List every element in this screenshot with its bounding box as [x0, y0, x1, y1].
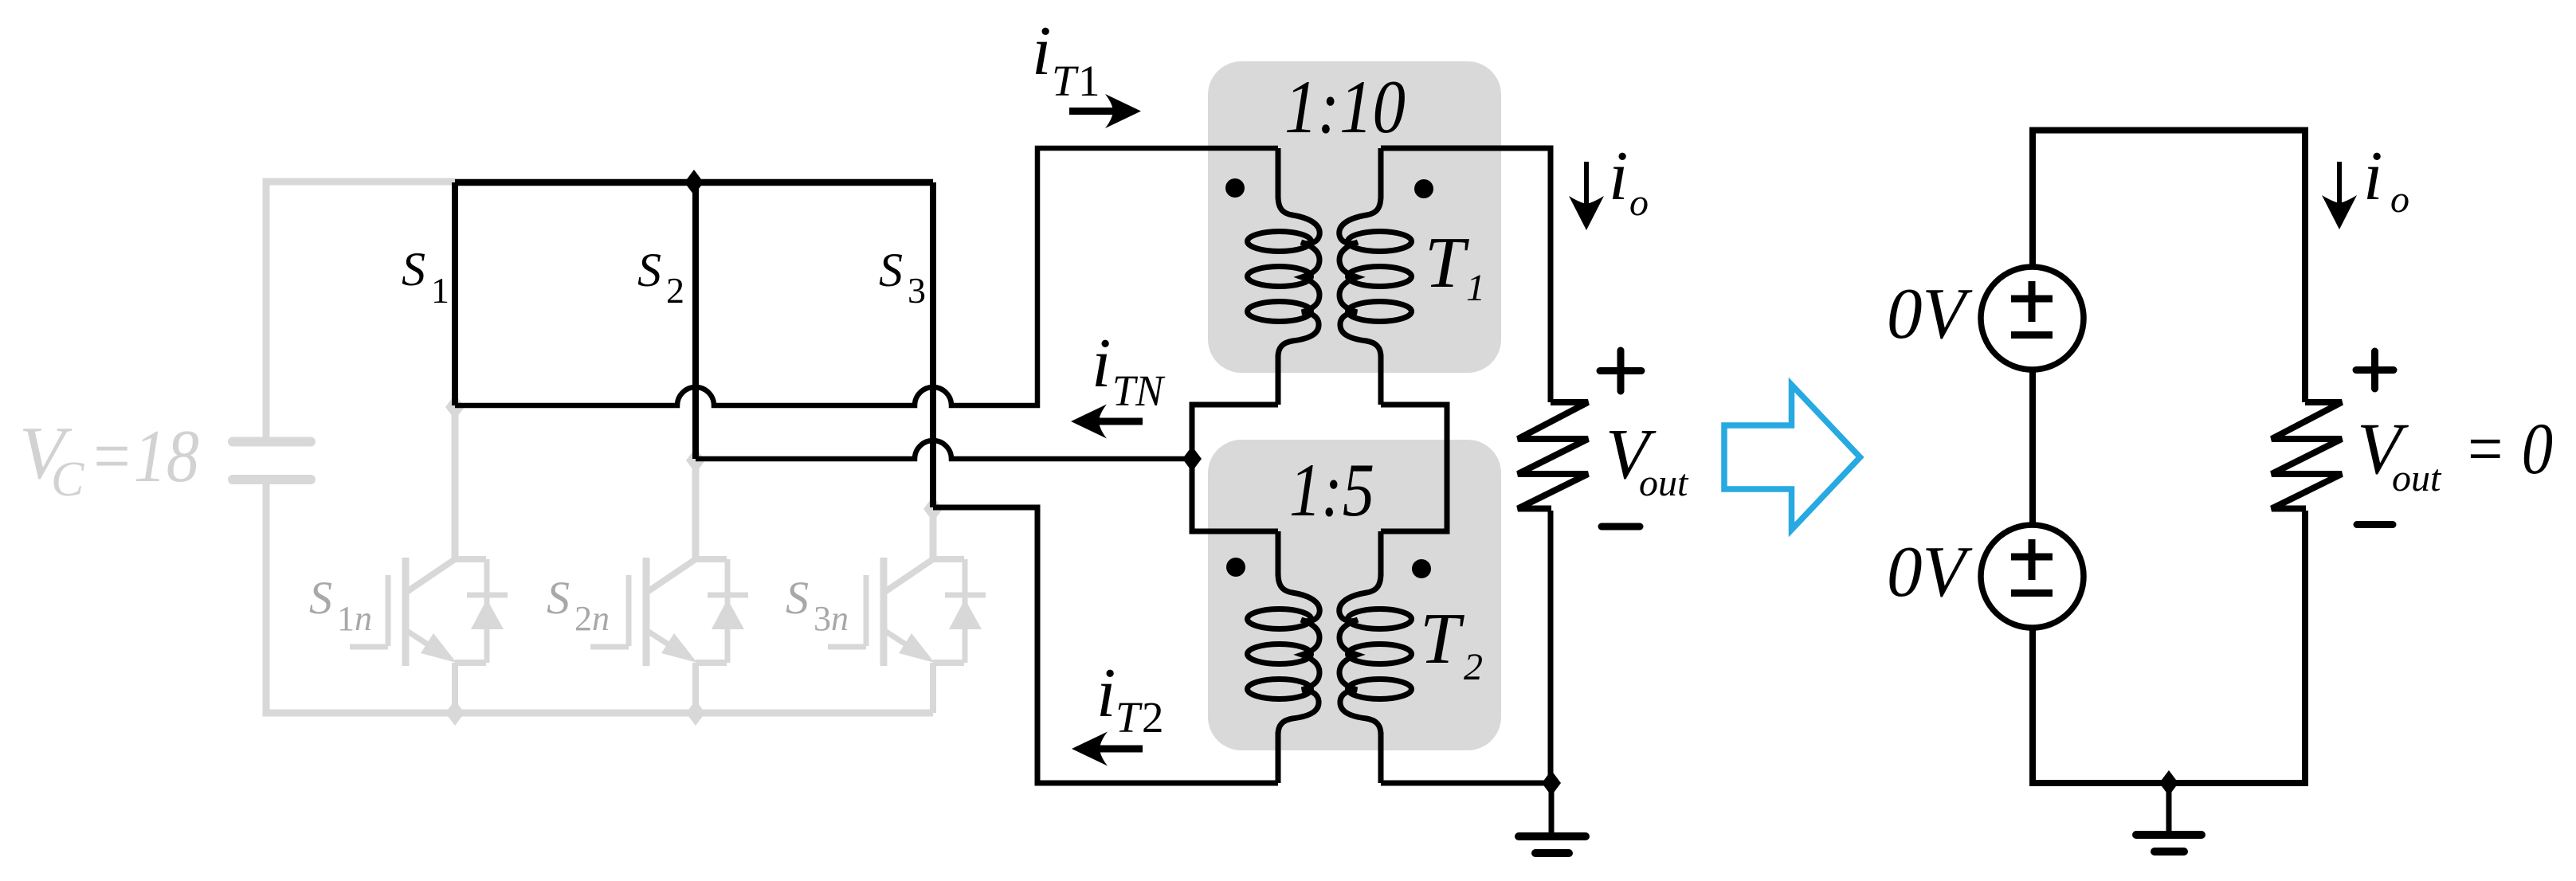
svg-text:out: out: [1639, 462, 1689, 504]
node N vertical + rails to T1/T2 primaries: [1192, 405, 1278, 531]
wire between sources: [2029, 370, 2036, 525]
svg-text:1n: 1n: [337, 599, 372, 638]
svg-text:3: 3: [908, 270, 926, 311]
node N diamond: [1182, 446, 1202, 472]
rails T1 secondary bottom to T2 secondary top: [1381, 405, 1447, 531]
polarity dot T1 secondary: [1414, 179, 1433, 198]
T1 secondary terminals: [1378, 148, 1384, 198]
wire gray S3n collector drop: [930, 510, 937, 559]
wire1 box bottom with hops over S2,S3 then up to iT1 wire to T1 primary: [455, 148, 1278, 405]
wire gray from capacitor bottom to bottom rail: [266, 484, 933, 713]
wire source2 to bottom: [2033, 511, 2305, 783]
svg-text:i: i: [1032, 13, 1051, 90]
switch S3 vertical, corner to x=1302, down, bottom wire iT2 to T2 primary: [930, 182, 936, 507]
svg-text:1: 1: [1466, 267, 1485, 309]
minus right: [2357, 521, 2393, 528]
label VC=18: [19, 412, 199, 507]
big cyan arrow: [1724, 385, 1860, 530]
resistor vertical bottom lead: [1548, 511, 1554, 783]
transformer T1 secondary coil: [1339, 196, 1412, 357]
capacitor VC bottom plate: [233, 475, 311, 484]
wire T1 secondary top to output: [1381, 148, 1551, 402]
label S1n: [309, 572, 372, 638]
transistor S2n: [590, 558, 748, 713]
svg-text:2: 2: [1464, 646, 1483, 688]
svg-text:o: o: [1629, 182, 1649, 224]
svg-text:i: i: [1092, 325, 1111, 402]
wire top right circuit: [2033, 131, 2305, 403]
source V2 0V: [1981, 525, 2084, 628]
label S3n: [786, 572, 849, 638]
svg-text:C: C: [51, 452, 84, 507]
arrow io left: [1584, 162, 1589, 209]
polarity dot T2 secondary: [1412, 559, 1431, 578]
polarity dot T2 primary: [1226, 558, 1245, 577]
transformer T1 background: [1208, 61, 1501, 373]
ground left: [1549, 783, 1555, 836]
junction gray diamond on wire1 below S1: [445, 394, 465, 420]
polarity dot T1 primary: [1225, 178, 1245, 198]
svg-text:S: S: [547, 572, 570, 624]
svg-text:S: S: [786, 572, 809, 624]
label S2n: [547, 572, 610, 638]
switch S1 vertical: [452, 182, 458, 405]
svg-text:S: S: [637, 244, 661, 296]
wire gray top from capacitor to S1: [266, 182, 455, 437]
svg-text:i: i: [1609, 138, 1628, 215]
arrow iT2: [1096, 746, 1143, 753]
svg-text:1: 1: [431, 270, 449, 311]
svg-text:T: T: [1425, 222, 1469, 303]
svg-text:o: o: [2390, 178, 2409, 221]
arrow io right: [2337, 162, 2342, 209]
svg-text:0V: 0V: [1887, 273, 1973, 354]
svg-text:T: T: [1420, 598, 1464, 679]
svg-text:1:5: 1:5: [1289, 448, 1374, 532]
transistor S1n: [350, 558, 508, 713]
capacitor VC top plate: [233, 437, 311, 447]
svg-text:out: out: [2392, 457, 2442, 499]
svg-text:1: 1: [1078, 57, 1100, 105]
svg-text:i: i: [1096, 655, 1115, 732]
svg-text:i: i: [2363, 138, 2382, 215]
wire box top: [455, 179, 933, 186]
minus left: [1602, 523, 1640, 531]
svg-text:TN: TN: [1112, 366, 1166, 415]
transformer T1 primary coil: [1248, 196, 1320, 357]
transformer T2 primary coil: [1248, 574, 1320, 734]
wire gray S1n collector drop: [452, 409, 459, 559]
svg-text:S: S: [402, 243, 425, 296]
arrow iTN: [1096, 418, 1143, 425]
junction gray diamond on bottom rail at S2n: [686, 700, 705, 726]
wire gray S2n collector drop: [692, 461, 700, 559]
T2 secondary terminals: [1378, 531, 1384, 576]
transistor S3n: [828, 558, 986, 713]
plus right: [2356, 351, 2394, 389]
switch S2 vertical + wire2 to node N with hop over S3: [692, 182, 699, 459]
junction gray diamond on bottom rail at S1n: [445, 700, 465, 726]
junction gray diamond on wire2 below S2: [686, 448, 705, 473]
resistor Vout right: [2272, 402, 2342, 509]
svg-text:2: 2: [666, 270, 684, 311]
svg-text:T: T: [1115, 693, 1143, 742]
resistor Vout left: [1518, 402, 1588, 509]
svg-text:T: T: [1052, 57, 1079, 105]
svg-text:= 0: = 0: [2464, 408, 2553, 489]
node diamond top: [684, 170, 704, 195]
svg-text:2n: 2n: [574, 599, 610, 638]
svg-text:1:10: 1:10: [1284, 65, 1406, 149]
plus left: [1600, 350, 1641, 391]
transformer T2 background: [1208, 440, 1501, 750]
svg-text:0V: 0V: [1887, 531, 1973, 612]
source V1 0V: [1981, 267, 2084, 370]
svg-text:3n: 3n: [814, 599, 849, 638]
T2 primary terminals: [1276, 531, 1281, 576]
svg-text:2: 2: [1142, 693, 1164, 742]
T1 primary terminals: [1276, 148, 1281, 198]
junction gray diamond below S3 corner: [923, 496, 943, 522]
svg-text:S: S: [309, 572, 332, 624]
node diamond ground left: [1542, 770, 1561, 796]
ground right: [2159, 770, 2178, 796]
wire T2 secondary bottom to ground node: [1381, 781, 1551, 786]
svg-text:S: S: [879, 244, 903, 296]
svg-text:=18: =18: [89, 415, 199, 498]
transformer T2 secondary coil: [1339, 574, 1412, 734]
arrow iT1: [1069, 108, 1118, 115]
